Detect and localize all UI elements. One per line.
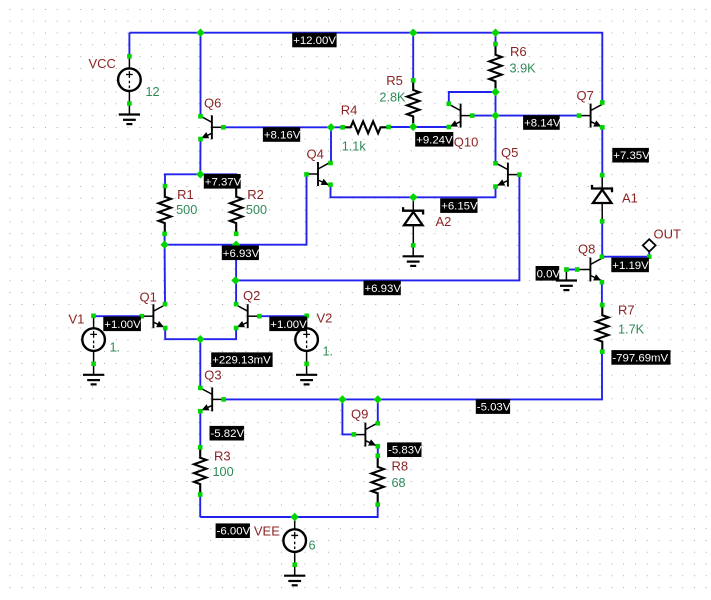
- probe +6.15V: [440, 198, 478, 213]
- node A1 top: [600, 173, 605, 178]
- node Q8 emitter: [600, 280, 605, 285]
- transistor Q6: [200, 115, 223, 139]
- wire Q8 base to ground: [566, 269, 577, 271]
- output terminal OUT: [643, 239, 656, 251]
- svg-text:+7.37V: +7.37V: [205, 176, 242, 188]
- node Q7 base: [577, 113, 582, 118]
- node Q9 collector: [376, 421, 381, 426]
- wire Q6 base to R4 (net +8.16V): [223, 126, 342, 128]
- svg-text:0.0V: 0.0V: [537, 268, 561, 280]
- wire branch to Q4 collector: [330, 127, 332, 163]
- junction R2/+6.93V: [232, 241, 240, 249]
- wire Q10 base to Q7 base (net +8.14V): [472, 115, 579, 117]
- svg-text:3.9K: 3.9K: [510, 62, 537, 76]
- probe +7.37V: [204, 174, 242, 189]
- voltage source VCC (12V): [118, 56, 141, 103]
- svg-text:R7: R7: [618, 303, 635, 318]
- wire R7 bottom to Q3 base (net -5.03V): [224, 352, 602, 400]
- node V2 top: [304, 314, 309, 319]
- junction +8.16V / Q4 branch: [327, 123, 335, 131]
- svg-text:Q9: Q9: [351, 406, 368, 421]
- wire Q8 collector to OUT: [602, 250, 649, 257]
- node Q5 collector: [493, 161, 498, 166]
- svg-text:Q3: Q3: [204, 367, 221, 382]
- resistor R5 2.8K: [407, 80, 419, 126]
- wire R3 bottom to VEE rail: [199, 495, 201, 518]
- node Q1 emitter: [163, 326, 168, 331]
- junction emitters / Q3: [196, 335, 204, 343]
- node Q4 emitter: [328, 182, 333, 187]
- node Q3 emitter: [198, 409, 203, 414]
- svg-text:+9.24V: +9.24V: [416, 134, 453, 146]
- wire rail to Q6 collector: [200, 33, 202, 117]
- probe -6.00V: [216, 523, 251, 538]
- svg-text:A2: A2: [436, 214, 452, 229]
- svg-text:Q5: Q5: [501, 145, 518, 160]
- svg-text:Q2: Q2: [243, 288, 260, 303]
- resistor R4 1.1k: [343, 121, 389, 133]
- probe -5.03V: [476, 399, 511, 414]
- node R3 top: [198, 445, 203, 450]
- junction R5 bottom / +9.24V: [409, 123, 417, 131]
- resistor R7 1.7K: [596, 305, 608, 352]
- svg-text:500: 500: [176, 203, 197, 217]
- node R3 bottom: [198, 492, 203, 497]
- node Q10 collector: [447, 102, 452, 107]
- svg-text:1.7K: 1.7K: [618, 323, 645, 337]
- probe -5.82V: [210, 426, 245, 441]
- node Q9 emitter: [376, 444, 381, 449]
- node A1 bottom: [600, 219, 605, 224]
- node Q8 collector: [600, 254, 605, 259]
- node R2 top: [234, 184, 239, 189]
- junction rail/R5: [409, 29, 417, 37]
- svg-text:Q8: Q8: [578, 241, 595, 256]
- wire A2 junction stub: [412, 197, 414, 199]
- probe +9.24V: [415, 132, 453, 147]
- ground below V1: [83, 364, 104, 385]
- svg-text:VEE: VEE: [254, 524, 280, 539]
- svg-text:6: 6: [309, 539, 316, 553]
- wire A1 to Q8 collector: [601, 221, 603, 256]
- wire V1 to Q1 base: [94, 315, 142, 317]
- node Q5 emitter: [493, 184, 498, 189]
- probe 0.0V: [536, 266, 561, 281]
- svg-text:+12.00V: +12.00V: [293, 35, 336, 47]
- probe +8.14V: [523, 115, 561, 130]
- node R8 bottom: [375, 502, 380, 507]
- node Q1 base: [140, 314, 145, 319]
- svg-text:+6.93V: +6.93V: [223, 248, 260, 260]
- svg-text:Q4: Q4: [307, 146, 324, 161]
- junction R6 bottom: [491, 88, 499, 96]
- resistor R6 3.9K: [489, 44, 501, 92]
- svg-text:+1.19V: +1.19V: [612, 260, 649, 272]
- wire Q3 emitter to R3: [199, 411, 201, 447]
- junction +8.14V net: [491, 111, 499, 119]
- wire R1 bottom to R2 bottom (net +6.93V): [165, 174, 307, 244]
- node R8 top: [376, 453, 381, 458]
- node Q10 base: [470, 113, 475, 118]
- probe +12.00V: [292, 33, 336, 48]
- transistor Q5: [496, 163, 519, 187]
- node Q7 emitter: [600, 125, 605, 130]
- wire Q7 emitter to A1: [601, 127, 603, 175]
- probe +1.00V left: [103, 317, 141, 332]
- transistor Q3: [201, 387, 224, 411]
- svg-text:1.1k: 1.1k: [342, 140, 367, 154]
- transistor Q4: [307, 162, 330, 186]
- wire R6 bottom down to Q5 collector: [495, 92, 497, 163]
- svg-text:-5.83V: -5.83V: [388, 445, 422, 457]
- node R1 bottom: [162, 232, 167, 237]
- probe +1.19V: [611, 258, 649, 273]
- svg-text:Q1: Q1: [140, 289, 157, 304]
- junction -5.03V / Q9 collector branch: [374, 395, 382, 403]
- node Q4 collector: [328, 161, 333, 166]
- resistor R3 100: [194, 447, 206, 494]
- wire R4 to Q10 emitter (net +9.24V): [389, 126, 449, 128]
- svg-text:1.: 1.: [323, 345, 334, 359]
- svg-text:+6.93V: +6.93V: [365, 283, 402, 295]
- svg-text:R1: R1: [177, 187, 194, 202]
- transistor Q7: [579, 104, 602, 128]
- transistor Q9: [354, 423, 377, 447]
- wire junction down to Q9 collector: [377, 399, 379, 423]
- svg-text:100: 100: [213, 465, 234, 479]
- wire R1 junction to Q1 collector: [164, 245, 166, 304]
- junction A2 / +6.15V: [409, 193, 417, 201]
- node R4 right: [386, 125, 391, 130]
- svg-text:A1: A1: [622, 191, 638, 206]
- node VCC+: [127, 54, 132, 59]
- wire R5 bottom junction: [412, 126, 414, 128]
- wire Q8 emitter to R7: [601, 282, 603, 305]
- node V1 bottom: [91, 362, 96, 367]
- wire Q4 emitter to Q5 emitter (net +6.15V): [331, 185, 496, 198]
- junction +6.93V run: [231, 276, 239, 284]
- node Q8 base: [575, 267, 580, 272]
- svg-text:R2: R2: [247, 187, 264, 202]
- node Q6 collector: [198, 114, 203, 119]
- svg-text:Q6: Q6: [204, 96, 221, 111]
- svg-text:1.: 1.: [110, 341, 121, 355]
- svg-text:Q7: Q7: [577, 88, 594, 103]
- node R2 bottom: [234, 232, 239, 237]
- node Q5 base: [517, 172, 522, 177]
- node Q3 collector: [198, 386, 203, 391]
- svg-text:R3: R3: [214, 449, 231, 464]
- svg-text:R5: R5: [386, 73, 403, 88]
- resistor R2 500: [230, 186, 242, 234]
- svg-text:OUT: OUT: [654, 226, 682, 241]
- svg-text:-6.00V: -6.00V: [217, 526, 251, 538]
- svg-text:R4: R4: [341, 103, 358, 118]
- wire +6.93V run to Q5 base: [236, 175, 520, 281]
- transistor Q10: [449, 104, 472, 128]
- node Q4 base: [304, 172, 309, 177]
- svg-text:VCC: VCC: [89, 56, 116, 71]
- svg-text:+6.15V: +6.15V: [441, 201, 478, 213]
- probe +8.16V: [263, 127, 301, 142]
- junction VEE rail: [291, 513, 299, 521]
- node Q2 collector: [234, 302, 239, 307]
- node R6 top: [493, 42, 498, 47]
- junction rail/Q6: [196, 29, 204, 37]
- svg-text:Q10: Q10: [454, 135, 479, 150]
- wire Q6 emitter to +7.37V junction: [199, 139, 201, 174]
- svg-text:+1.00V: +1.00V: [270, 319, 307, 331]
- wire Q2 base to V2: [259, 315, 306, 317]
- svg-text:R8: R8: [392, 459, 409, 474]
- probe -5.83V: [387, 442, 422, 457]
- ground below VEE: [284, 565, 305, 586]
- probe +7.35V: [612, 148, 650, 163]
- svg-text:2.8K: 2.8K: [379, 91, 406, 105]
- node R7 top: [600, 303, 605, 308]
- svg-text:+8.14V: +8.14V: [524, 118, 561, 130]
- probe +229.13mV: [211, 352, 272, 367]
- svg-text:68: 68: [392, 476, 406, 490]
- probe +6.93V left: [222, 246, 260, 261]
- node V1 top: [91, 314, 96, 319]
- wire +12V top rail: [129, 33, 602, 103]
- node Q7 collector: [600, 100, 605, 105]
- wire emitter junction down to Q3 collector: [199, 339, 201, 388]
- node Q6 emitter: [198, 137, 203, 142]
- node VEE bottom: [292, 562, 297, 567]
- ground below V2: [296, 364, 317, 385]
- node Q2 emitter: [234, 326, 239, 331]
- ground below VCC: [119, 104, 140, 125]
- junction -5.03V / Q9 base branch: [338, 395, 346, 403]
- node R4 left: [340, 125, 345, 130]
- wire rail to R5: [412, 33, 414, 81]
- transistor Q2: [236, 304, 259, 328]
- ground below A2: [403, 245, 424, 266]
- svg-text:500: 500: [246, 203, 267, 217]
- wire VCC to rail: [128, 33, 130, 57]
- svg-text:V2: V2: [317, 311, 333, 326]
- svg-text:V1: V1: [69, 312, 85, 327]
- node R5 top: [411, 78, 416, 83]
- wire rail to R6: [495, 33, 497, 44]
- wire junction to R2 top: [200, 174, 236, 186]
- wire Q10 collector to R6 bottom: [449, 92, 496, 104]
- wire Q1 emitter to Q2 emitter: [165, 328, 236, 339]
- probe -797.69mV: [611, 350, 670, 365]
- wire junction down to Q9 base: [342, 399, 354, 434]
- ground at Q8 base (0.0V): [556, 270, 577, 291]
- node OUT: [647, 254, 652, 259]
- node VCC-: [127, 101, 132, 106]
- node V2 bottom: [304, 362, 309, 367]
- voltage source VEE (6V): [283, 517, 306, 565]
- node Q9 base: [352, 432, 357, 437]
- junction +7.37V: [196, 170, 204, 178]
- svg-text:+8.16V: +8.16V: [264, 130, 301, 142]
- svg-text:+1.00V: +1.00V: [104, 319, 141, 331]
- svg-text:R6: R6: [510, 44, 527, 59]
- node Q10 emitter: [447, 125, 452, 130]
- wire Q9 emitter to R8: [377, 446, 379, 455]
- transistor Q8: [579, 258, 602, 282]
- wire junction to R1 top: [165, 174, 200, 186]
- node R1 top: [163, 184, 168, 189]
- svg-text:-5.82V: -5.82V: [211, 428, 245, 440]
- wire R8 bottom to VEE rail: [200, 505, 378, 517]
- zener diode A2: [403, 197, 423, 245]
- resistor R8 68: [372, 456, 384, 505]
- node Q2 base: [257, 314, 262, 319]
- node A2 bottom: [411, 243, 416, 248]
- transistor Q1: [142, 304, 165, 328]
- svg-text:-5.03V: -5.03V: [477, 402, 511, 414]
- voltage source V1 (1V): [82, 316, 105, 364]
- voltage source V2 (1V): [295, 316, 318, 364]
- svg-text:+7.35V: +7.35V: [613, 150, 650, 162]
- zener diode A1: [592, 175, 612, 221]
- node Q3 base: [221, 397, 226, 402]
- node Q6 base: [221, 125, 226, 130]
- node Q8 base ground: [564, 267, 569, 272]
- node Q1 collector: [163, 302, 168, 307]
- svg-text:12: 12: [146, 85, 160, 99]
- resistor R1 500: [159, 186, 171, 234]
- svg-text:+229.13mV: +229.13mV: [212, 355, 271, 367]
- svg-text:-797.69mV: -797.69mV: [612, 352, 668, 364]
- node R7 bottom: [600, 349, 605, 354]
- probe +1.00V right: [269, 317, 307, 332]
- junction rail/R6: [491, 29, 499, 37]
- wire R2 junction to Q2 collector: [235, 245, 237, 304]
- probe +6.93V right: [364, 281, 402, 296]
- junction R1/+6.93V: [160, 241, 168, 249]
